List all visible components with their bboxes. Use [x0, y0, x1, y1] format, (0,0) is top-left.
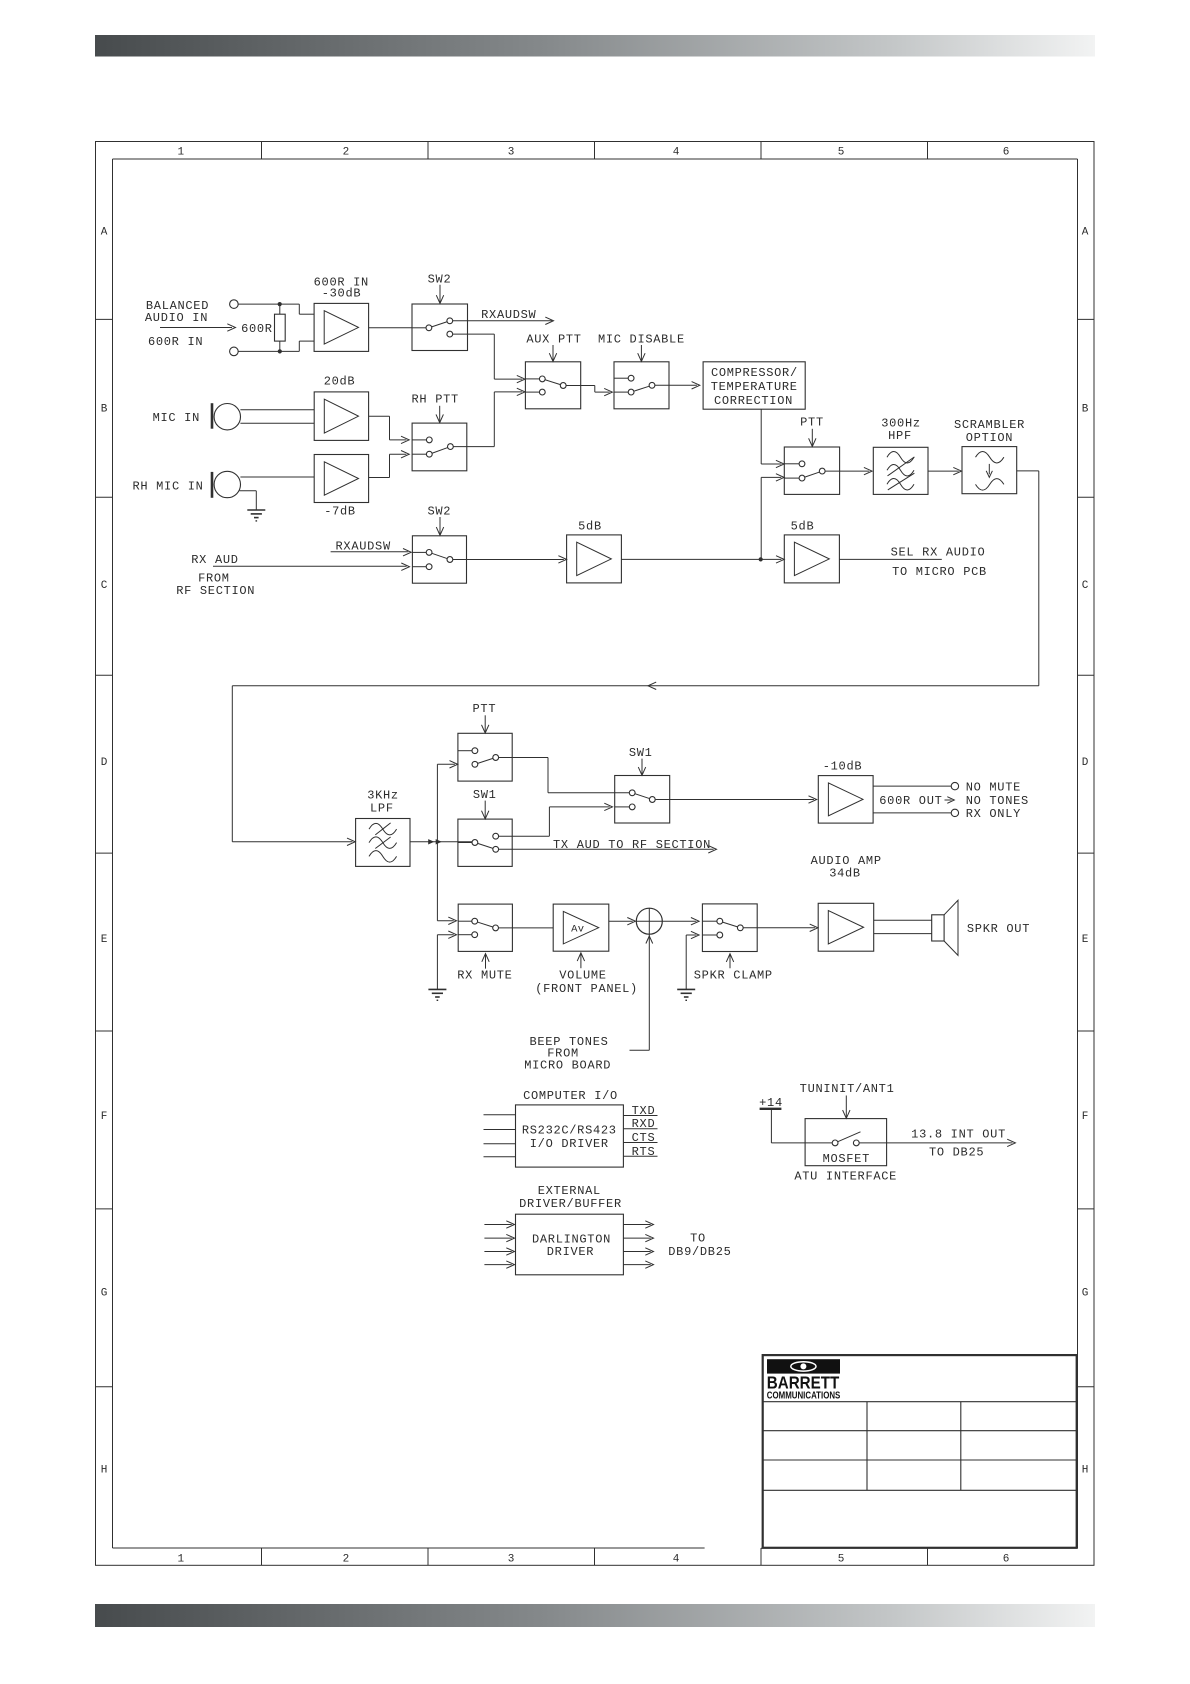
svg-text:ATU INTERFACE: ATU INTERFACE	[794, 1169, 897, 1183]
svg-text:H: H	[1082, 1465, 1089, 1477]
svg-text:TO MICRO PCB: TO MICRO PCB	[892, 565, 987, 579]
svg-text:TO DB25: TO DB25	[929, 1146, 984, 1160]
wire mic1 pair to amp	[240, 410, 314, 423]
wire summing node to spkr clamp	[662, 918, 699, 925]
frame column dividers	[262, 142, 928, 1566]
wire spkr clamp ground leg	[686, 931, 699, 989]
wire RX AUD into SW2b	[213, 563, 410, 570]
svg-text:G: G	[101, 1288, 108, 1300]
wire CTS	[623, 1142, 657, 1144]
wire 600R OUT no-mute	[873, 782, 959, 789]
logo BARRETT banner	[767, 1359, 840, 1373]
inner border frame	[113, 159, 1078, 1548]
svg-text:600R OUT: 600R OUT	[879, 794, 942, 808]
svg-text:TUNINIT/ANT1: TUNINIT/ANT1	[800, 1082, 895, 1096]
svg-text:RTS: RTS	[632, 1145, 656, 1159]
label AUDIO AMP 34dB	[811, 854, 882, 881]
wire amp U3 to RH PTT lower	[369, 451, 410, 478]
svg-text:SW1: SW1	[473, 788, 497, 802]
wire top input to amp	[238, 304, 314, 314]
svg-text:CTS: CTS	[632, 1131, 656, 1145]
svg-text:D: D	[101, 757, 108, 769]
label TO DB9/DB25	[668, 1232, 731, 1259]
top gradient banner	[95, 35, 1095, 57]
wire mic2 to amp	[240, 476, 314, 478]
svg-text:DRIVER/BUFFER: DRIVER/BUFFER	[519, 1197, 622, 1211]
svg-text:600R IN: 600R IN	[148, 335, 203, 349]
label 600R OUT with arrow	[879, 794, 954, 808]
svg-text:C: C	[101, 580, 108, 592]
outer border frame	[96, 142, 1095, 1566]
svg-text:RH PTT: RH PTT	[411, 392, 458, 406]
svg-text:5: 5	[838, 147, 845, 159]
svg-text:13.8 INT OUT: 13.8 INT OUT	[911, 1128, 1006, 1142]
svg-text:F: F	[1082, 1111, 1089, 1123]
svg-text:H: H	[101, 1465, 108, 1477]
svg-text:2: 2	[343, 1554, 350, 1566]
amplifier U6 -10dB	[818, 776, 873, 824]
switch PTT1 TX/RX select	[784, 447, 839, 494]
amplifier U5 5dB	[784, 535, 839, 583]
svg-text:1: 1	[177, 1554, 184, 1566]
svg-text:20dB: 20dB	[324, 375, 356, 389]
svg-text:PTT: PTT	[473, 702, 497, 716]
arrow SW1b control	[638, 759, 645, 776]
wire RX MUTE to volume	[499, 927, 554, 929]
svg-text:SW2: SW2	[428, 273, 452, 287]
label EXTERNAL DRIVER/BUFFER	[519, 1184, 622, 1211]
switch SW1b 600R out select	[615, 776, 670, 824]
svg-text:RXD: RXD	[632, 1117, 656, 1131]
node RX audio junction	[759, 557, 763, 561]
svg-text:NO TONES: NO TONES	[966, 794, 1029, 808]
filter 300Hz HPF	[873, 447, 928, 494]
svg-text:RX ONLY: RX ONLY	[966, 807, 1021, 821]
svg-text:TO: TO	[690, 1232, 706, 1246]
wire amp U2 to RH PTT upper	[369, 416, 410, 443]
frame row dividers	[96, 319, 1095, 1386]
svg-text:D: D	[1082, 757, 1089, 769]
input terminal bottom	[230, 347, 239, 356]
switch SW2b RX audio select	[412, 536, 466, 583]
svg-text:AUX PTT: AUX PTT	[526, 333, 581, 347]
svg-text:6: 6	[1003, 147, 1010, 159]
svg-text:TX AUD TO RF SECTION: TX AUD TO RF SECTION	[553, 838, 711, 852]
svg-text:A: A	[1082, 226, 1089, 238]
label 3KHz LPF	[367, 789, 399, 816]
svg-text:DB9/DB25: DB9/DB25	[668, 1245, 731, 1259]
switch SPKR CLAMP	[702, 904, 757, 952]
svg-text:600R: 600R	[241, 322, 273, 336]
wire 600R OUT rx-only	[873, 809, 959, 816]
svg-text:1: 1	[177, 147, 184, 159]
svg-text:34dB: 34dB	[829, 867, 861, 881]
wire beep tones into summing node	[630, 934, 653, 1050]
switch RH PTT	[412, 423, 467, 471]
svg-text:RS232C/RS423: RS232C/RS423	[522, 1124, 617, 1138]
bottom gradient banner	[95, 1604, 1095, 1627]
svg-text:6: 6	[1003, 1554, 1010, 1566]
svg-text:A: A	[101, 226, 108, 238]
svg-text:Av: Av	[571, 923, 584, 935]
svg-text:COMPRESSOR/: COMPRESSOR/	[711, 366, 798, 380]
wire audio amp to speaker pair	[874, 920, 932, 933]
wire SEL RX AUDIO output	[839, 558, 941, 560]
svg-text:CORRECTION: CORRECTION	[714, 394, 793, 408]
block SCRAMBLER OPTION	[962, 447, 1017, 494]
wire darlington outputs	[623, 1221, 653, 1269]
svg-text:SW2: SW2	[427, 505, 451, 519]
svg-text:COMMUNICATIONS: COMMUNICATIONS	[767, 1390, 841, 1401]
svg-text:SEL RX AUDIO: SEL RX AUDIO	[891, 545, 986, 559]
svg-text:(FRONT PANEL): (FRONT PANEL)	[535, 982, 638, 996]
wire SW1b output to -10dB amp	[656, 796, 817, 803]
wire bottom input to amp	[238, 341, 314, 351]
svg-text:-10dB: -10dB	[823, 759, 863, 773]
title block grid	[763, 1402, 1077, 1491]
svg-text:5dB: 5dB	[578, 520, 602, 534]
wire TXD	[623, 1115, 657, 1117]
wire RS232 inputs	[484, 1115, 516, 1157]
svg-text:RF SECTION: RF SECTION	[176, 584, 255, 598]
wire darlington inputs	[484, 1221, 514, 1269]
svg-text:G: G	[1082, 1288, 1089, 1300]
arrow MIC DISABLE control	[638, 345, 645, 361]
svg-text:VOLUME: VOLUME	[559, 969, 606, 983]
svg-text:MICRO BOARD: MICRO BOARD	[524, 1059, 611, 1073]
ground mic2	[247, 510, 265, 521]
wire +14 to mosfet switch	[771, 1109, 832, 1143]
wire 5dB amp to 5dB amp2	[621, 556, 784, 563]
svg-text:PTT: PTT	[800, 416, 824, 430]
amplifier U3 -7dB mic amp	[314, 455, 368, 503]
label 13.8 INT OUT TO DB25	[911, 1128, 1006, 1160]
switch RX MUTE	[458, 904, 512, 951]
svg-text:RXAUDSW: RXAUDSW	[481, 308, 536, 322]
arrow RX MUTE pointer	[482, 954, 489, 969]
svg-text:5dB: 5dB	[791, 520, 815, 534]
svg-text:3: 3	[508, 147, 515, 159]
svg-text:MOSFET: MOSFET	[823, 1152, 870, 1166]
node summing junction	[636, 908, 662, 934]
svg-text:LPF: LPF	[370, 802, 394, 816]
arrow PTT1 control	[809, 429, 816, 447]
label 600R IN -30dB	[314, 276, 369, 301]
label SCRAMBLER OPTION	[954, 418, 1025, 445]
amplifier U1 600R IN -30dB	[314, 303, 369, 351]
node bottom junction	[278, 349, 282, 353]
svg-text:5: 5	[838, 1554, 845, 1566]
wire TX/RX feedback bus	[232, 682, 1039, 845]
wire RX junction up to PTT lower	[761, 474, 784, 560]
svg-text:3KHz: 3KHz	[367, 789, 399, 803]
switch AUX PTT	[525, 362, 580, 409]
wire RTS	[623, 1155, 657, 1157]
wire RH PTT output to AUX PTT	[453, 388, 525, 446]
wire TX AUD TO RF SECTION	[499, 846, 717, 853]
svg-text:4: 4	[673, 147, 680, 159]
wire mic2 to ground	[240, 491, 257, 510]
filter 3KHz LPF	[356, 819, 410, 867]
ground RX mute bus	[428, 989, 446, 1000]
input terminal top	[230, 300, 239, 309]
svg-text:SPKR OUT: SPKR OUT	[967, 922, 1030, 936]
wire scrambler output down to feedback line	[1017, 471, 1039, 686]
wire amp U1 to SW2a	[369, 327, 412, 329]
amplifier U8 audio amp	[818, 903, 874, 951]
ground spkr clamp	[677, 989, 695, 1000]
arrow SW2b control	[436, 517, 443, 535]
wire SW1a upper output to SW1b lower	[499, 803, 613, 836]
block DARLINGTON DRIVER	[516, 1214, 624, 1275]
svg-text:NO MUTE: NO MUTE	[966, 780, 1021, 794]
arrow VOLUME pointer	[577, 953, 584, 968]
resistor R 600R termination	[275, 304, 286, 351]
label BEEP TONES FROM MICRO BOARD	[524, 1035, 611, 1073]
label 300Hz HPF	[881, 416, 921, 443]
wire balanced input arrow	[160, 324, 236, 331]
svg-text:TEMPERATURE: TEMPERATURE	[711, 380, 798, 394]
svg-text:RH MIC IN: RH MIC IN	[132, 480, 203, 494]
arrow SW1a control	[482, 801, 489, 819]
arrow PTT2 control	[482, 715, 489, 733]
block COMPRESSOR/TEMPERATURE CORRECTION	[703, 362, 805, 409]
svg-text:E: E	[101, 934, 108, 946]
svg-text:MIC DISABLE: MIC DISABLE	[598, 333, 685, 347]
svg-text:RX AUD: RX AUD	[191, 553, 238, 567]
arrow RH PTT control	[436, 406, 443, 423]
microphone MIC2 symbol	[212, 471, 241, 498]
amplifier U7 volume Av	[553, 904, 609, 951]
microphone MIC1 symbol	[212, 403, 241, 430]
wire SW2b to 5dB amp	[453, 556, 567, 563]
wire LPF to SW1a	[410, 841, 472, 843]
wire vertical bus LPF junction	[437, 761, 457, 990]
svg-text:B: B	[1082, 403, 1089, 415]
wire HPF to scrambler	[928, 467, 962, 474]
amplifier U4 5dB	[567, 535, 622, 583]
amplifier U2 20dB mic amp	[314, 392, 368, 441]
svg-text:DRIVER: DRIVER	[547, 1245, 594, 1259]
svg-text:-30dB: -30dB	[322, 286, 362, 300]
wire RXD	[623, 1128, 657, 1130]
svg-text:SW1: SW1	[629, 746, 653, 760]
svg-text:RX MUTE: RX MUTE	[457, 969, 512, 983]
svg-text:F: F	[101, 1111, 108, 1123]
wire spkr clamp to audio amp	[743, 924, 818, 931]
label NO MUTE / NO TONES / RX ONLY	[966, 780, 1029, 821]
wire RXAUDSW into SW2b	[331, 549, 412, 556]
arrow TUNINIT control	[843, 1096, 850, 1119]
label VOLUME (FRONT PANEL)	[535, 969, 638, 997]
svg-text:OPTION: OPTION	[966, 431, 1013, 445]
wire PTT1 to HPF	[825, 467, 872, 474]
block RS232C/RS423 I/O DRIVER	[516, 1105, 624, 1167]
label BALANCED AUDIO IN 600R IN	[145, 299, 209, 349]
arrow AUX PTT control	[549, 345, 556, 361]
arrow SW2a control	[436, 285, 443, 304]
label RX AUD FROM RF SECTION	[176, 553, 255, 598]
switch SW1a TX audio select	[458, 819, 512, 866]
wire 13.8 INT OUT	[859, 1139, 1015, 1146]
svg-text:2: 2	[343, 147, 350, 159]
node top junction	[278, 302, 282, 306]
wire SW2a lower output to AUX PTT	[453, 334, 525, 383]
svg-text:4: 4	[673, 1554, 680, 1566]
wire PTT2 output to SW1b upper	[499, 758, 630, 793]
svg-text:TXD: TXD	[632, 1104, 656, 1118]
node LPF junction markers	[428, 839, 442, 844]
svg-text:-7dB: -7dB	[324, 505, 356, 519]
wire volume to summing node	[609, 918, 636, 925]
title block frame	[763, 1355, 1077, 1548]
switch MIC DISABLE	[614, 362, 669, 409]
wire compressor output down to PTT upper	[761, 409, 784, 468]
svg-text:MIC IN: MIC IN	[153, 411, 200, 425]
svg-text:B: B	[101, 403, 108, 415]
svg-text:E: E	[1082, 934, 1089, 946]
frame zone labels	[101, 147, 1089, 1566]
speaker LS1 symbol	[932, 900, 958, 955]
arrow SPKR CLAMP pointer	[726, 954, 733, 969]
svg-text:3: 3	[508, 1554, 515, 1566]
svg-text:SPKR CLAMP: SPKR CLAMP	[694, 968, 773, 982]
label SEL RX AUDIO TO MICRO PCB	[891, 545, 987, 579]
wire AUX PTT to MIC DISABLE	[566, 386, 612, 396]
power +14 supply	[759, 1096, 783, 1110]
svg-text:C: C	[1082, 580, 1089, 592]
svg-text:AUDIO IN: AUDIO IN	[145, 311, 208, 325]
switch PTT2 TX select	[458, 733, 512, 781]
switch MOSFET ATU interface	[805, 1119, 887, 1167]
svg-text:COMPUTER I/O: COMPUTER I/O	[523, 1089, 618, 1103]
wire MIC DISABLE to compressor	[655, 382, 700, 389]
svg-text:HPF: HPF	[888, 429, 912, 443]
wire RXAUDSW output	[453, 317, 554, 324]
svg-text:I/O DRIVER: I/O DRIVER	[530, 1137, 609, 1151]
switch SW2a RX audio switch	[412, 304, 468, 351]
